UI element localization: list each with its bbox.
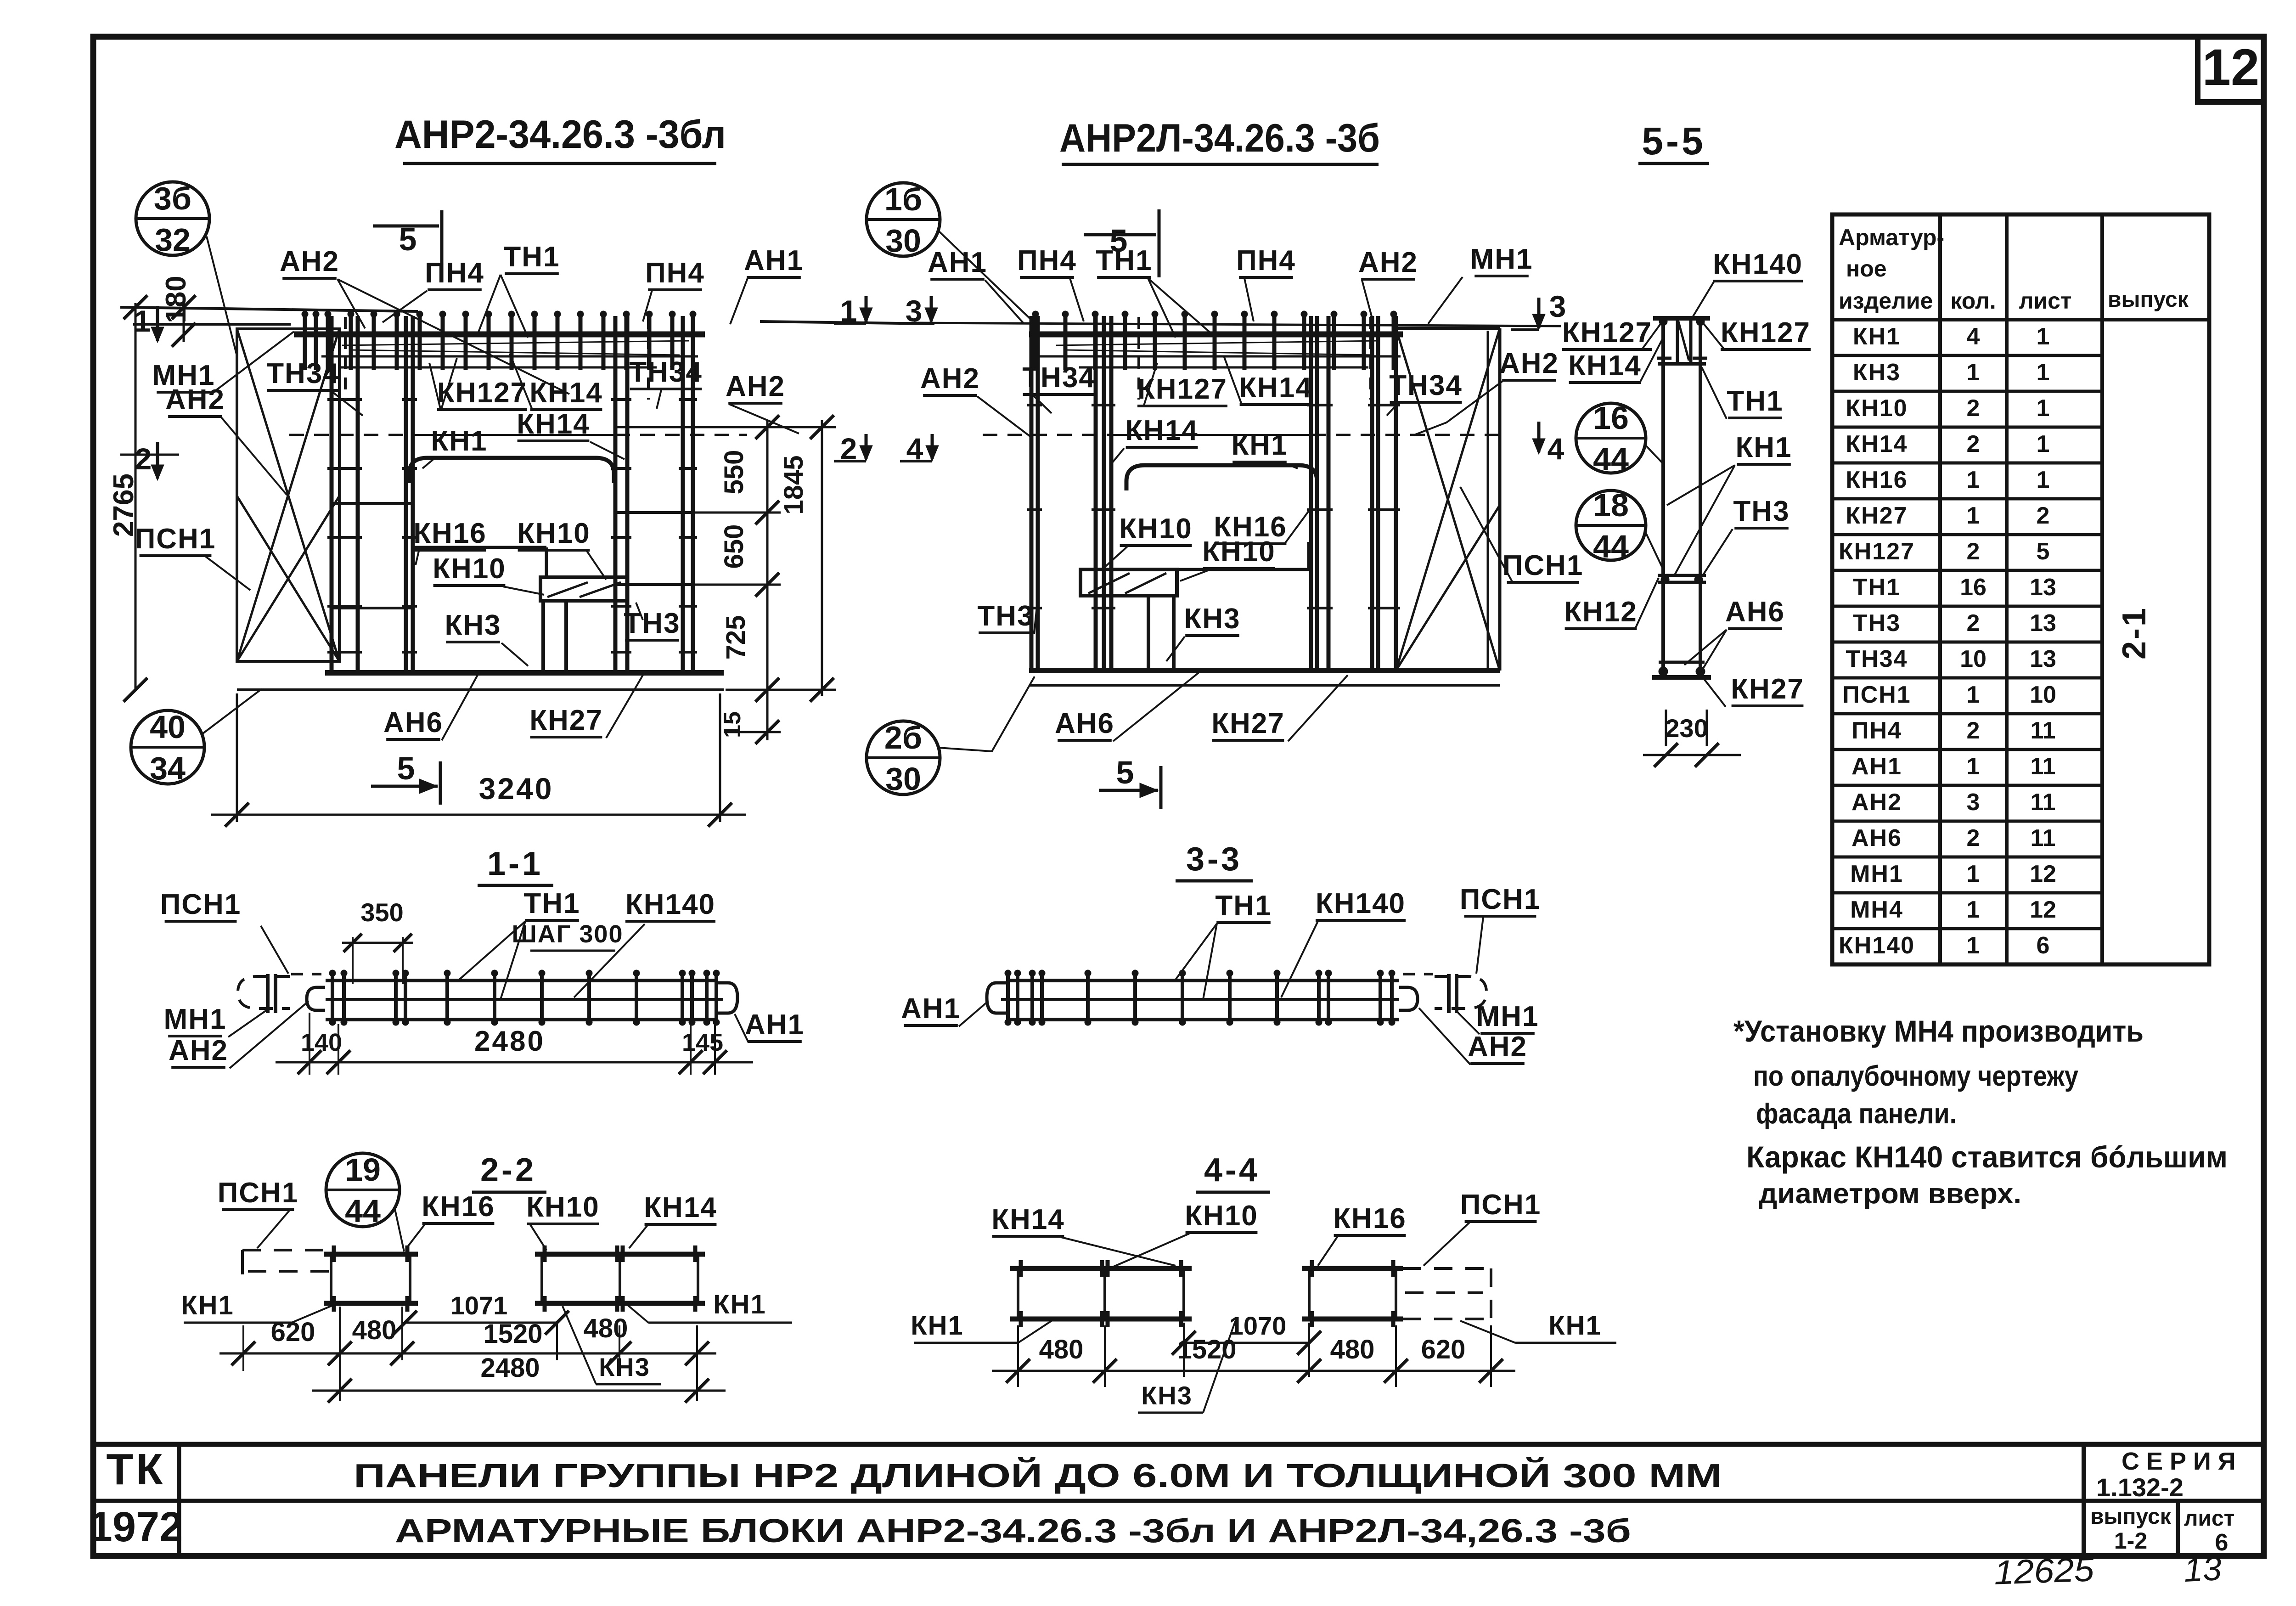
left block: column bars [330, 316, 334, 673]
svg-text:12625: 12625 [1993, 1550, 2095, 1592]
svg-text:кол.: кол. [1950, 288, 1996, 314]
svg-text:40: 40 [150, 709, 186, 745]
svg-text:АН1: АН1 [928, 247, 987, 278]
svg-text:выпуск: выпуск [2108, 287, 2189, 312]
svg-text:18: 18 [1593, 487, 1629, 523]
middle block: mesh stirrups [1034, 316, 1038, 370]
svg-text:КН140: КН140 [1316, 888, 1406, 919]
section 5-5: middle tie [1658, 574, 1706, 577]
svg-text:3: 3 [1967, 789, 1980, 816]
middle block: bottom chord [1029, 668, 1500, 673]
section 1-1: PSN1 dashed hook [238, 976, 290, 1009]
svg-text:КН3: КН3 [445, 609, 501, 641]
svg-text:1: 1 [2037, 395, 2050, 422]
dimension 1070 of 4-4 [1183, 1323, 1185, 1377]
svg-text:КН16: КН16 [1846, 467, 1908, 493]
svg-text:30: 30 [885, 223, 921, 259]
svg-text:19: 19 [345, 1152, 381, 1188]
section 3-3: AN2 end hook [1399, 987, 1418, 1010]
svg-text:КН14: КН14 [529, 377, 603, 409]
svg-text:КН127: КН127 [437, 377, 527, 409]
parts table row ПН4 [1832, 712, 2102, 716]
title block left column line [177, 1444, 181, 1556]
right dimension column of left block [766, 420, 769, 740]
svg-text:5: 5 [397, 750, 415, 786]
svg-text:КН1: КН1 [181, 1290, 234, 1320]
svg-text:2: 2 [135, 442, 152, 476]
section 5-5: top box inner bars [1676, 318, 1679, 364]
svg-text:480: 480 [1330, 1335, 1375, 1364]
left block: bottom chord [325, 670, 724, 676]
svg-text:АН2: АН2 [1358, 247, 1418, 278]
svg-text:по опалубочному чертежу: по опалубочному чертежу [1753, 1060, 2078, 1092]
svg-text:12: 12 [2030, 896, 2056, 923]
dimension 350 of section 1-1 [352, 937, 354, 984]
middle block: mesh top chord [1029, 332, 1403, 338]
svg-text:ПН4: ПН4 [645, 257, 705, 289]
svg-text:ПСН1: ПСН1 [1460, 1189, 1542, 1221]
svg-text:АН2: АН2 [1468, 1031, 1527, 1063]
dimension 2480 of 2-2 [312, 1390, 726, 1392]
svg-text:1: 1 [1967, 932, 1980, 959]
svg-text:АН6: АН6 [1851, 825, 1902, 851]
svg-text:1071: 1071 [450, 1291, 508, 1320]
svg-text:фасада панели.: фасада панели. [1756, 1098, 1957, 1130]
svg-text:АН2: АН2 [920, 363, 980, 394]
position mark 2б/30 [867, 721, 940, 795]
svg-text:350: 350 [360, 898, 403, 927]
svg-text:4-4: 4-4 [1204, 1152, 1260, 1189]
left block: step column bars [541, 601, 545, 673]
middle block: mesh longitudinal wires [1056, 341, 1378, 345]
svg-text:АН2: АН2 [280, 246, 339, 277]
svg-text:2: 2 [2037, 502, 2050, 529]
svg-text:КН16: КН16 [422, 1191, 495, 1223]
section 5-5: top cap [1653, 316, 1710, 321]
section 5-5: bottom cap [1652, 675, 1711, 680]
svg-text:изделие: изделие [1839, 288, 1933, 314]
svg-text:КН14: КН14 [991, 1204, 1065, 1235]
position mark 1б/30 [867, 183, 940, 256]
dimension 1070 of 2-2 [401, 1307, 403, 1360]
parts table row ТН3 [1832, 605, 2102, 608]
svg-text:725: 725 [721, 615, 751, 660]
left block: mesh top chord [294, 332, 705, 338]
left block: cut line 1-1 right part [760, 321, 934, 324]
middle block: step box [1080, 569, 1177, 596]
svg-text:10: 10 [1960, 646, 1986, 672]
svg-text:КН14: КН14 [517, 408, 590, 440]
svg-text:2: 2 [1967, 825, 1980, 851]
svg-text:КН3: КН3 [1853, 359, 1901, 386]
svg-text:КН140: КН140 [1713, 248, 1803, 280]
svg-text:2-2: 2-2 [480, 1152, 536, 1189]
svg-text:ТН3: ТН3 [1733, 496, 1790, 527]
svg-text:КН10: КН10 [1846, 395, 1908, 422]
svg-text:30: 30 [885, 761, 921, 797]
section 2-2: block B [535, 1252, 705, 1257]
svg-text:12: 12 [2202, 39, 2260, 96]
section 3-3: MN1 anchor ticks [1447, 974, 1451, 1013]
parts table row КН127 [1832, 533, 2102, 536]
section 1-1 bottom dimensions [309, 1013, 310, 1075]
svg-text:ПСН1: ПСН1 [135, 523, 216, 555]
svg-text:ПСН1: ПСН1 [160, 889, 242, 920]
section 1-1: AN2 end hook [307, 987, 325, 1010]
svg-text:ШАГ 300: ШАГ 300 [512, 920, 624, 948]
svg-text:ное: ное [1846, 256, 1887, 282]
section 2-2: block A [324, 1252, 418, 1257]
svg-text:11: 11 [2031, 825, 2056, 851]
svg-text:ПН4: ПН4 [425, 257, 484, 289]
svg-text:КН16: КН16 [413, 518, 487, 549]
left block: opening top bar KH1 [409, 458, 614, 483]
svg-text:КН1: КН1 [1231, 429, 1288, 461]
leader from mark 2b/30 [938, 676, 1035, 751]
parts table row КН14 [1832, 426, 2102, 429]
svg-text:3240: 3240 [479, 772, 554, 806]
svg-text:ТН34: ТН34 [266, 358, 340, 389]
section 4-4: dashed PSN1 outline [1403, 1267, 1491, 1270]
svg-text:КН27: КН27 [1211, 708, 1285, 739]
leader from mark 40/34 [201, 689, 262, 735]
dimension row 480/1520/480/620 of 4-4 [1017, 1325, 1019, 1387]
svg-text:16: 16 [1593, 400, 1629, 436]
middle block: dashed tie lines [983, 434, 1111, 436]
svg-text:180: 180 [160, 276, 192, 323]
left block: mesh bottom lines [321, 355, 698, 358]
title block right column line [2082, 1444, 2086, 1556]
svg-text:2: 2 [1967, 610, 1980, 637]
dimension row 620/480/1520/480 of 2-2 [242, 1325, 244, 1371]
left block: cut line 1-1 left part [120, 307, 418, 311]
svg-text:АН6: АН6 [1725, 596, 1785, 628]
svg-text:13: 13 [2030, 610, 2056, 637]
svg-text:ТН1: ТН1 [523, 888, 580, 919]
left block: left extension line at level 2 [120, 454, 179, 456]
svg-text:480: 480 [1039, 1335, 1084, 1364]
svg-text:КН27: КН27 [1731, 673, 1804, 705]
svg-text:КН10: КН10 [526, 1191, 600, 1223]
svg-text:КН10: КН10 [517, 518, 591, 549]
svg-text:12: 12 [2030, 861, 2056, 887]
svg-text:10: 10 [2030, 682, 2056, 708]
middle block: X braced panel [1395, 328, 1398, 671]
svg-text:5: 5 [2037, 538, 2050, 565]
parts table row МН4 [1832, 891, 2102, 895]
svg-text:ТН34: ТН34 [1389, 370, 1463, 401]
svg-text:КН14: КН14 [1239, 372, 1312, 404]
svg-text:ПН4: ПН4 [1236, 245, 1296, 276]
section 1-1: beam chords [326, 979, 716, 982]
middle block: mesh bottom lines [1033, 355, 1401, 358]
svg-text:1: 1 [2037, 431, 2050, 457]
svg-text:КН10: КН10 [1202, 536, 1276, 568]
extension lines right [615, 426, 836, 428]
svg-text:ТК: ТК [106, 1445, 165, 1494]
svg-text:1: 1 [2037, 323, 2050, 350]
parts table header row line [1832, 318, 2209, 321]
parts table row КН16 [1832, 462, 2102, 465]
left block: mesh longitudinal wires [342, 341, 689, 345]
leader 18/44 [1646, 533, 1663, 569]
middle block: column stirrup ties [1027, 404, 1042, 406]
svg-text:2: 2 [1967, 717, 1980, 744]
svg-text:1: 1 [1967, 896, 1980, 923]
position mark 18/44 [1576, 490, 1646, 560]
svg-text:ТН3: ТН3 [1853, 610, 1901, 637]
svg-text:лист: лист [2184, 1506, 2234, 1531]
parts table column lines [1938, 214, 1942, 964]
svg-text:1070: 1070 [1229, 1311, 1287, 1340]
svg-text:КН140: КН140 [625, 889, 715, 920]
middle block: PN4 pin dashed bars [1137, 317, 1140, 400]
svg-text:2-1: 2-1 [2116, 606, 2153, 659]
svg-text:2б: 2б [884, 720, 922, 755]
svg-text:1972: 1972 [89, 1504, 183, 1550]
svg-text:6: 6 [2037, 932, 2050, 959]
svg-text:2480: 2480 [474, 1026, 545, 1057]
svg-text:13: 13 [2030, 646, 2056, 672]
svg-text:КН127: КН127 [1839, 538, 1915, 565]
svg-text:МН1: МН1 [1476, 1001, 1539, 1032]
section 3-3: AN1 left end hook [987, 983, 1007, 1013]
left block: panel top extension line [133, 323, 291, 326]
bottom dimension 3240 of left block [236, 693, 238, 822]
svg-text:2480: 2480 [480, 1353, 540, 1383]
svg-text:3-3: 3-3 [1186, 841, 1242, 878]
svg-text:ТН34: ТН34 [1846, 646, 1908, 672]
svg-text:44: 44 [345, 1193, 381, 1229]
svg-text:ТН3: ТН3 [624, 608, 680, 639]
left block: column stirrup ties [327, 398, 362, 401]
svg-text:620: 620 [271, 1317, 315, 1347]
svg-text:КН140: КН140 [1839, 932, 1915, 959]
parts table frame [1832, 214, 2209, 964]
svg-text:АНР2Л-34.26.3 -3б: АНР2Л-34.26.3 -3б [1059, 116, 1380, 160]
position mark 3б/32 [136, 182, 209, 255]
svg-text:КН127: КН127 [1137, 373, 1227, 405]
svg-text:44: 44 [1593, 441, 1629, 477]
svg-text:КН1: КН1 [713, 1290, 766, 1319]
section 5-5: bottom tie [1659, 661, 1705, 664]
svg-text:1: 1 [1967, 753, 1980, 780]
svg-text:11: 11 [2031, 753, 2056, 780]
left block: step box [540, 577, 627, 601]
svg-text:АН1: АН1 [744, 245, 804, 276]
middle block: column bars [1030, 316, 1034, 671]
section 5-5: column verticals [1661, 318, 1665, 677]
svg-text:ПАНЕЛИ ГРУППЫ НР2 ДЛИНОЙ Д: ПАНЕЛИ ГРУППЫ НР2 ДЛИНОЙ ДО 6.0М И ТОЛЩИ… [354, 1457, 1722, 1494]
parts table row КН10 [1832, 390, 2102, 393]
svg-text:лист: лист [2019, 288, 2072, 314]
leader from mark 3b/32 [207, 237, 237, 356]
svg-text:16: 16 [1960, 574, 1986, 601]
svg-text:32: 32 [155, 222, 191, 258]
svg-text:1: 1 [1967, 467, 1980, 493]
svg-text:КН1: КН1 [1548, 1311, 1602, 1341]
parts table row ТН34 [1832, 641, 2102, 644]
svg-text:Арматур-: Арматур- [1839, 225, 1944, 250]
svg-text:КН10: КН10 [1185, 1200, 1258, 1232]
svg-text:480: 480 [584, 1313, 628, 1343]
svg-text:КН1: КН1 [1853, 323, 1901, 350]
svg-text:АН2: АН2 [726, 371, 785, 402]
section 5-5: top bolts [1657, 357, 1671, 360]
svg-text:11: 11 [2031, 789, 2056, 816]
svg-text:1: 1 [1967, 359, 1980, 386]
svg-text:1: 1 [2037, 467, 2050, 493]
svg-text:выпуск: выпуск [2090, 1505, 2172, 1529]
svg-text:ТН1: ТН1 [1096, 245, 1152, 276]
middle block: opening top bar KH1 [1126, 465, 1317, 490]
svg-text:ТН3: ТН3 [977, 600, 1034, 632]
leader 16/44 [1646, 445, 1663, 464]
left block: dashed tie lines [289, 434, 413, 436]
svg-text:3б: 3б [154, 180, 191, 216]
svg-text:2: 2 [1967, 395, 1980, 422]
left block: side ties [332, 502, 413, 505]
svg-text:1-1: 1-1 [487, 845, 543, 882]
svg-text:ТН1: ТН1 [1853, 574, 1901, 601]
svg-text:13: 13 [2030, 574, 2056, 601]
svg-text:11: 11 [2031, 717, 2056, 744]
svg-text:КН14: КН14 [1568, 350, 1642, 382]
left block: panel bottom edge [237, 688, 724, 691]
svg-text:550: 550 [719, 450, 749, 495]
middle block: middle bar [1080, 568, 1309, 571]
middle block: top reference line [914, 323, 1561, 326]
svg-text:МН4: МН4 [1850, 896, 1903, 923]
position mark 16/44 [1576, 403, 1646, 473]
svg-text:АН2: АН2 [1499, 348, 1559, 379]
svg-text:АНР2-34.26.3 -3бл: АНР2-34.26.3 -3бл [394, 113, 726, 157]
svg-text:ПСН1: ПСН1 [218, 1177, 299, 1209]
svg-text:5: 5 [1116, 755, 1134, 790]
svg-text:1б: 1б [884, 181, 922, 217]
svg-text:4: 4 [1548, 432, 1564, 466]
svg-text:КН27: КН27 [1846, 502, 1908, 529]
svg-text:5-5: 5-5 [1642, 119, 1705, 163]
svg-text:1845: 1845 [779, 455, 809, 514]
title block виза divider [2176, 1501, 2180, 1556]
title block middle line [93, 1499, 2264, 1503]
dimension 180 [183, 296, 185, 342]
svg-text:1520: 1520 [483, 1319, 542, 1349]
leader from mark 19/44 [395, 1209, 404, 1251]
parts table row АН1 [1832, 748, 2102, 751]
dimension 230 of 5-5 [1665, 710, 1667, 746]
svg-text:ТН1: ТН1 [1215, 890, 1272, 922]
svg-text:2: 2 [1967, 538, 1980, 565]
svg-text:2: 2 [1967, 431, 1980, 457]
svg-text:МН1: МН1 [164, 1003, 227, 1035]
svg-text:1-2: 1-2 [2114, 1528, 2147, 1554]
left block: PN4 pin dashed bars [344, 317, 347, 400]
svg-text:140: 140 [301, 1029, 342, 1056]
svg-text:ПН4: ПН4 [1851, 717, 1902, 744]
svg-text:КН3: КН3 [599, 1352, 650, 1381]
svg-text:Каркас КН140 ставится бóльш: Каркас КН140 ставится бóльшим [1746, 1140, 2228, 1174]
svg-text:КН12: КН12 [1564, 596, 1638, 628]
leader from mark 1b/30 [938, 231, 1038, 326]
svg-text:АРМАТУРНЫЕ БЛОКИ АНР2-34.26.: АРМАТУРНЫЕ БЛОКИ АНР2-34.26.3 -3бл И АНР… [395, 1513, 1631, 1550]
section 2-2: dashed PSN1 outline [242, 1249, 331, 1251]
parts table row КН140 [1832, 927, 2102, 930]
title block top line [93, 1442, 2264, 1447]
svg-text:КН10: КН10 [1119, 513, 1193, 545]
svg-text:КН127: КН127 [1562, 317, 1652, 349]
svg-text:С Е Р И Я: С Е Р И Я [2122, 1448, 2236, 1475]
middle block: step column bars [1147, 596, 1150, 671]
svg-text:1: 1 [1967, 861, 1980, 887]
svg-text:КН127: КН127 [1721, 317, 1811, 349]
parts table bottom inner line [1832, 963, 2102, 966]
svg-text:620: 620 [1421, 1335, 1466, 1364]
svg-text:1: 1 [1967, 682, 1980, 708]
svg-text:диаметром вверх.: диаметром вверх. [1759, 1178, 2021, 1210]
section 1-1: MN1 anchor ticks [266, 974, 270, 1013]
svg-text:230: 230 [1665, 714, 1708, 743]
svg-text:АН6: АН6 [383, 707, 443, 738]
section 3-3: PSN1 dashed hook [1435, 976, 1486, 1009]
sheet number box [2198, 37, 2264, 102]
svg-text:КН1: КН1 [1735, 432, 1792, 463]
svg-text:ТН34: ТН34 [1022, 362, 1096, 394]
svg-text:АН2: АН2 [1851, 789, 1902, 816]
svg-text:*Установку МН4 производить: *Установку МН4 производить [1733, 1014, 2144, 1048]
svg-text:МН1: МН1 [1850, 861, 1903, 887]
svg-text:КН3: КН3 [1141, 1381, 1193, 1410]
svg-text:КН1: КН1 [911, 1311, 964, 1341]
svg-text:145: 145 [682, 1029, 723, 1056]
svg-text:КН27: КН27 [529, 704, 603, 736]
parts table row ТН1 [1832, 569, 2102, 572]
section 1-1: stirrups [331, 974, 334, 1021]
svg-text:АН2: АН2 [165, 384, 225, 416]
svg-text:ТН1: ТН1 [503, 241, 560, 273]
section 3-3: stirrups [1390, 974, 1394, 1021]
svg-text:ПН4: ПН4 [1017, 245, 1077, 276]
left block: lifting-loop panel with X bracing [237, 329, 339, 661]
parts table row КН3 [1832, 354, 2102, 357]
svg-text:ПСН1: ПСН1 [1842, 682, 1911, 708]
svg-text:ПСН1: ПСН1 [1460, 884, 1541, 915]
parts table row МН1 [1832, 856, 2102, 859]
section 3-3: beam chords [1008, 979, 1399, 982]
svg-text:1: 1 [134, 304, 151, 338]
svg-text:480: 480 [352, 1315, 397, 1345]
svg-text:КН3: КН3 [1184, 603, 1240, 635]
svg-text:КН16: КН16 [1333, 1203, 1407, 1234]
svg-text:15: 15 [719, 711, 746, 738]
svg-text:13: 13 [2183, 1549, 2223, 1589]
position mark 40/34 [131, 710, 204, 784]
svg-text:КН1: КН1 [431, 425, 487, 457]
section 4-4: block 1 [1010, 1266, 1192, 1271]
svg-text:34: 34 [150, 750, 186, 786]
section 5-5: top box bottom line [1658, 362, 1706, 366]
svg-text:ПСН1: ПСН1 [1503, 550, 1584, 581]
svg-text:КН10: КН10 [433, 553, 506, 585]
svg-text:АН1: АН1 [745, 1009, 805, 1041]
parts table row ПСН1 [1832, 676, 2102, 680]
svg-text:1520: 1520 [1177, 1335, 1236, 1364]
svg-text:АН1: АН1 [1851, 753, 1902, 780]
svg-text:АН6: АН6 [1055, 708, 1114, 739]
svg-text:КН14: КН14 [644, 1192, 717, 1223]
svg-text:КН14: КН14 [1125, 415, 1199, 446]
